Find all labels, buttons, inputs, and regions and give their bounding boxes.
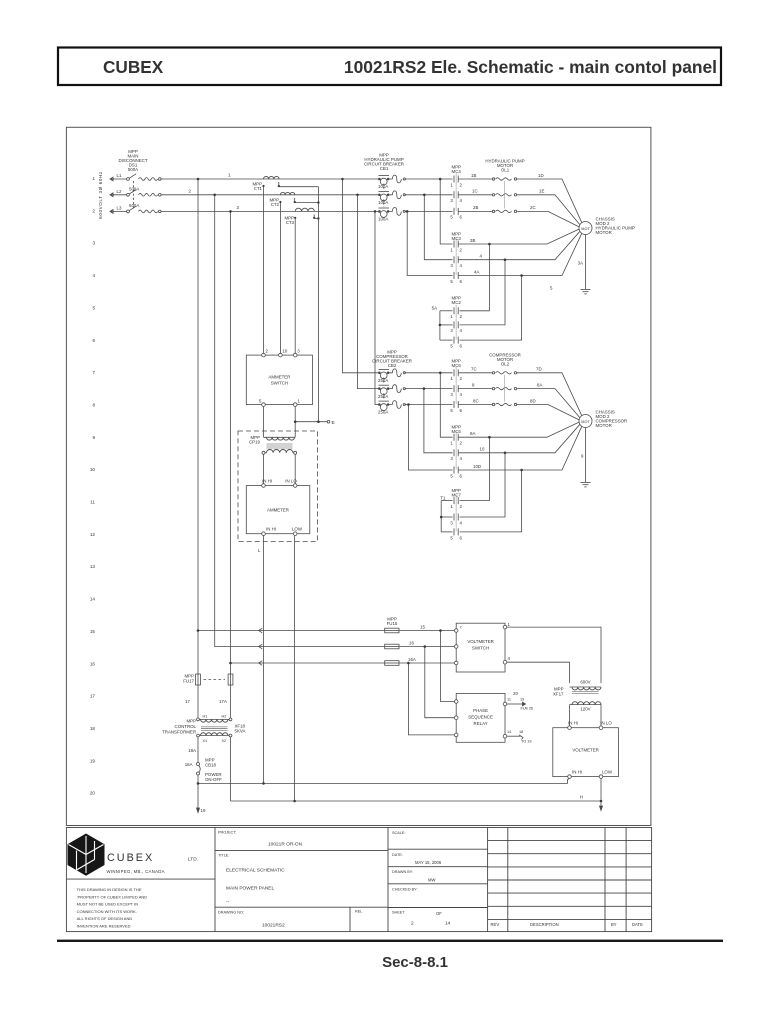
svg-text:14: 14 bbox=[507, 730, 511, 734]
svg-text:4: 4 bbox=[460, 520, 463, 525]
contactor MC6 pole3 bbox=[453, 401, 455, 408]
svg-text:2: 2 bbox=[460, 504, 463, 509]
svg-text:ON-OFF: ON-OFF bbox=[205, 777, 222, 782]
svg-text:5: 5 bbox=[92, 305, 95, 310]
MC2 linkage bbox=[455, 305, 457, 340]
svg-text:2: 2 bbox=[460, 182, 463, 187]
wire CT common vertical bbox=[317, 187, 319, 422]
svg-text:INVENTION ARE RESERVED: INVENTION ARE RESERVED bbox=[77, 924, 131, 929]
contactor MC5 pole1 bbox=[453, 434, 455, 441]
svg-text:5: 5 bbox=[450, 343, 453, 348]
svg-text:MC2: MC2 bbox=[452, 300, 462, 305]
wire feeder to CB2 row2 bbox=[358, 195, 380, 389]
svg-text:BY: BY bbox=[611, 922, 617, 927]
MC6 linkage bbox=[455, 367, 457, 404]
wire MC5 row2 to motor bbox=[505, 424, 580, 453]
wire L2 feeder bbox=[110, 194, 127, 196]
wire row1 CB2 to MC6 bbox=[405, 372, 453, 374]
svg-text:3: 3 bbox=[297, 349, 300, 354]
disconnect DS1 pole 3 bbox=[127, 210, 130, 213]
breaker CB2 pole 2 bbox=[379, 384, 390, 386]
svg-text:IN HI: IN HI bbox=[568, 721, 578, 726]
overload OL1 pole3 bbox=[492, 210, 494, 212]
svg-text:600VOLT 3Ø 60Hz: 600VOLT 3Ø 60Hz bbox=[98, 171, 103, 219]
svg-text:19: 19 bbox=[520, 698, 524, 702]
svg-text:7D: 7D bbox=[536, 367, 542, 372]
wire motor M2 ground drop bbox=[585, 428, 587, 483]
svg-text:LTD.: LTD. bbox=[188, 856, 198, 862]
wire row3 OL2 to motor bbox=[517, 405, 579, 420]
contactor MC7 pole2 bbox=[453, 514, 455, 521]
svg-text:19: 19 bbox=[90, 758, 96, 763]
node rail2 ammeter LOW bbox=[293, 800, 296, 803]
wire 15 bbox=[198, 630, 385, 632]
MC7 linkage bbox=[455, 495, 457, 532]
node MC3 row1 out bbox=[488, 243, 491, 246]
svg-text:8: 8 bbox=[92, 403, 95, 408]
svg-text:10: 10 bbox=[90, 467, 96, 472]
wire ammeter switch pin1 drop bbox=[294, 406, 296, 437]
MC5 linkage bbox=[455, 431, 457, 469]
ground symbol M1 bbox=[581, 289, 591, 291]
node CT2 common join bbox=[317, 201, 319, 203]
svg-text:CT1: CT1 bbox=[254, 186, 263, 191]
svg-text:MC6: MC6 bbox=[452, 363, 462, 368]
svg-text:X1: X1 bbox=[203, 739, 208, 743]
node row3-x230.5 bbox=[229, 210, 232, 213]
node CT3 left tap bbox=[294, 217, 296, 219]
svg-text:CP19: CP19 bbox=[249, 439, 261, 444]
contactor MC3 pole3 bbox=[453, 272, 455, 279]
contactor MC2 pole2 bbox=[453, 321, 455, 328]
svg-text:PROPERTY OF CUBEX LIMITED AND: PROPERTY OF CUBEX LIMITED AND bbox=[78, 894, 148, 899]
svg-text:1: 1 bbox=[450, 182, 453, 187]
svg-text:H2: H2 bbox=[222, 715, 227, 719]
arrow source L3 bbox=[110, 209, 114, 213]
wire row3 CB1 to MC4 bbox=[405, 210, 453, 212]
svg-text:9: 9 bbox=[92, 435, 95, 440]
svg-text:WINNIPEG, MB., CANADA: WINNIPEG, MB., CANADA bbox=[107, 869, 165, 874]
svg-text:IN HI: IN HI bbox=[262, 478, 272, 483]
svg-text:20: 20 bbox=[513, 691, 518, 696]
svg-text:4: 4 bbox=[480, 254, 483, 259]
svg-text:250A: 250A bbox=[378, 394, 388, 399]
svg-text:MW: MW bbox=[428, 877, 435, 882]
terminal 3 bbox=[293, 353, 297, 357]
node row1 MC5 drop bbox=[439, 372, 442, 375]
svg-text:IN HI: IN HI bbox=[572, 770, 582, 775]
svg-text:PROJECT:: PROJECT: bbox=[218, 831, 236, 835]
wire row1 OL1 to motor bbox=[517, 179, 582, 223]
wire row2 OL1 to motor bbox=[517, 195, 580, 225]
svg-text:2: 2 bbox=[92, 208, 95, 213]
ammeter box bbox=[246, 484, 309, 536]
svg-text:19: 19 bbox=[201, 808, 206, 813]
svg-text:8: 8 bbox=[472, 382, 475, 387]
svg-text:11: 11 bbox=[507, 698, 511, 702]
node MC3 row3 out bbox=[520, 274, 523, 277]
label OL1 block bbox=[485, 159, 524, 173]
voltmeter box bbox=[553, 728, 619, 777]
svg-text:13: 13 bbox=[90, 564, 96, 569]
svg-text:H1: H1 bbox=[203, 715, 208, 719]
svg-text:18A: 18A bbox=[188, 748, 196, 753]
cubex logo bbox=[68, 834, 105, 876]
contactor MC5 pole2 bbox=[453, 449, 455, 456]
wire MC5 to MC7 vertical 3 bbox=[460, 470, 522, 532]
svg-text:CB2: CB2 bbox=[388, 363, 397, 368]
svg-text:DRAWN BY:: DRAWN BY: bbox=[392, 870, 413, 874]
CT1 coil bbox=[264, 176, 280, 179]
contactor MC6 pole1 bbox=[453, 369, 455, 376]
fuse FU17-1 bbox=[196, 674, 201, 685]
svg-text:ALL RIGHTS OF DESIGN AND: ALL RIGHTS OF DESIGN AND bbox=[77, 916, 133, 921]
arrow wire 19 bbox=[197, 808, 200, 813]
wire feeder to CB2 row3 bbox=[375, 211, 379, 404]
svg-text:CB1: CB1 bbox=[380, 166, 389, 171]
svg-text:5KVA: 5KVA bbox=[235, 729, 246, 734]
svg-text:CUBEX: CUBEX bbox=[107, 852, 154, 864]
MC7 wye common bbox=[440, 501, 442, 532]
motor M1 bbox=[579, 222, 592, 235]
svg-text:MC3: MC3 bbox=[452, 236, 462, 241]
svg-text:5: 5 bbox=[450, 535, 453, 540]
titleblock right texts bbox=[392, 831, 643, 927]
titleblock middle texts bbox=[218, 831, 362, 929]
svg-text:2: 2 bbox=[460, 247, 463, 252]
wire drop row1 to MC3 bbox=[440, 179, 452, 244]
wire MC3 to MC2 vertical 2 bbox=[460, 260, 506, 325]
svg-text:16: 16 bbox=[409, 641, 414, 646]
breaker CB1 pole 3 bbox=[379, 207, 390, 209]
svg-text:2B: 2B bbox=[473, 205, 478, 210]
label MPP MAIN DISCONNECT DS1 500A bbox=[118, 149, 147, 172]
MC4 linkage bbox=[455, 173, 457, 211]
breaker CB2 gang link bbox=[383, 377, 385, 384]
wire feeder to CB2 row1 bbox=[343, 179, 380, 373]
wire drop row3 to MC5 bbox=[408, 405, 452, 471]
svg-text:6: 6 bbox=[460, 535, 463, 540]
svg-text:MC7: MC7 bbox=[452, 493, 462, 498]
arrow wire16A bbox=[259, 661, 263, 666]
svg-text:L3: L3 bbox=[117, 205, 122, 210]
svg-text:18: 18 bbox=[519, 730, 523, 734]
svg-text:DATE:: DATE: bbox=[392, 853, 403, 857]
fuse FU17-2 bbox=[228, 674, 233, 685]
wire X1 to CB18 bbox=[197, 737, 199, 763]
svg-text:CONNECTION WITH ITS WORK.: CONNECTION WITH ITS WORK. bbox=[77, 909, 137, 914]
contactor MC5 pole3 bbox=[453, 467, 455, 474]
svg-text:4A: 4A bbox=[474, 269, 479, 274]
overload OL2 pole3 bbox=[492, 403, 494, 405]
svg-text:7: 7 bbox=[92, 370, 95, 375]
svg-text:ELECTRICAL SCHEMATIC: ELECTRICAL SCHEMATIC bbox=[226, 868, 285, 874]
svg-text:4: 4 bbox=[460, 328, 463, 333]
fuse FU15-3 bbox=[385, 661, 399, 666]
node row2 MC3 drop bbox=[423, 194, 426, 197]
wire phase bus row 1 bbox=[161, 178, 379, 180]
contactor MC2 pole1 bbox=[453, 307, 455, 314]
svg-text:3: 3 bbox=[450, 328, 453, 333]
node row2 CB2 drop bbox=[356, 194, 359, 197]
svg-text:14: 14 bbox=[90, 597, 96, 602]
svg-text:3: 3 bbox=[450, 456, 453, 461]
svg-text:CT3: CT3 bbox=[286, 220, 295, 225]
wire ammeter LOW drop bbox=[294, 536, 296, 802]
svg-text:12: 12 bbox=[90, 532, 96, 537]
svg-text:500A: 500A bbox=[128, 167, 138, 172]
svg-text:1D: 1D bbox=[538, 173, 544, 178]
arrow H end bbox=[600, 806, 603, 811]
node row3 CB2 drop bbox=[374, 210, 377, 213]
svg-text:14: 14 bbox=[445, 921, 451, 927]
breaker CB2 pole 3 bbox=[379, 400, 390, 402]
svg-text:5: 5 bbox=[450, 473, 453, 478]
svg-text:CUBEX: CUBEX bbox=[103, 57, 164, 77]
node wire16A relay drop bbox=[407, 662, 410, 665]
svg-text:250A: 250A bbox=[378, 410, 388, 415]
wire row2 OL2 to motor bbox=[517, 389, 580, 418]
node rail2 voltmeter drop bbox=[600, 800, 603, 803]
svg-text:6: 6 bbox=[460, 343, 463, 348]
svg-text:16: 16 bbox=[90, 661, 96, 666]
node CT1 right tap bbox=[278, 185, 280, 187]
svg-text:16A: 16A bbox=[408, 657, 416, 662]
wire drop wire16A to relay bbox=[408, 663, 454, 735]
svg-text:AMMETER: AMMETER bbox=[267, 508, 289, 513]
wire CB18 to rail1 bbox=[197, 775, 199, 811]
wire relay pin11 out bbox=[507, 703, 523, 705]
OL2 linkage bbox=[504, 375, 506, 402]
node CT3 common join bbox=[317, 217, 319, 219]
svg-text:2: 2 bbox=[460, 376, 463, 381]
wire vertical feeder phase3 x230.5 bbox=[230, 211, 232, 674]
wire MC5 row3 to motor bbox=[522, 426, 582, 470]
wire MC3 to MC2 vertical 1 bbox=[460, 244, 490, 311]
svg-text:5: 5 bbox=[450, 408, 453, 413]
svg-text:OF: OF bbox=[436, 911, 442, 916]
wire MC3 row2 to motor bbox=[505, 231, 580, 259]
svg-text:FU15: FU15 bbox=[387, 621, 398, 626]
wire ammeter L drop bbox=[263, 536, 265, 784]
svg-text:RELAY: RELAY bbox=[474, 721, 488, 726]
svg-text:6: 6 bbox=[92, 338, 95, 343]
svg-text:CT2: CT2 bbox=[271, 202, 280, 207]
svg-text:8C: 8C bbox=[473, 398, 479, 403]
arrow source L2 bbox=[110, 193, 114, 197]
node CT3 right tap bbox=[313, 217, 315, 219]
svg-text:250A: 250A bbox=[378, 378, 388, 383]
svg-text:6: 6 bbox=[460, 215, 463, 220]
overload OL1 pole2 bbox=[492, 194, 494, 196]
svg-text:E: E bbox=[332, 420, 335, 426]
svg-text:10021RS2: 10021RS2 bbox=[262, 923, 285, 929]
svg-text:18: 18 bbox=[90, 726, 96, 731]
left cell divider bbox=[214, 828, 216, 932]
terminal 10 bbox=[279, 353, 283, 357]
svg-text:1: 1 bbox=[92, 176, 95, 181]
svg-text:XF17: XF17 bbox=[553, 691, 564, 696]
svg-text:1C: 1C bbox=[472, 189, 478, 194]
node row2 MC5 drop bbox=[423, 387, 426, 390]
wire row2 CB1 to MC4 bbox=[405, 194, 453, 196]
rail 2 bbox=[231, 800, 602, 802]
svg-text:4: 4 bbox=[508, 656, 511, 661]
svg-text:MOT: MOT bbox=[581, 227, 590, 231]
transformer XF17 primary bbox=[570, 686, 602, 688]
svg-text:5: 5 bbox=[450, 215, 453, 220]
svg-text:3B: 3B bbox=[470, 238, 475, 243]
transformer CP19 bbox=[262, 437, 297, 485]
wire CT1 secondary tap bbox=[279, 182, 319, 187]
svg-text:REV: REV bbox=[491, 922, 500, 927]
svg-text:10D: 10D bbox=[473, 464, 481, 469]
svg-text:OL1: OL1 bbox=[501, 168, 510, 173]
arrow source L1 bbox=[110, 177, 114, 181]
wire drop wire15 to relay bbox=[441, 631, 455, 702]
title block frame bbox=[66, 828, 651, 932]
svg-text:TO 19: TO 19 bbox=[521, 740, 531, 744]
svg-text:16A: 16A bbox=[185, 762, 193, 767]
svg-text:15: 15 bbox=[420, 625, 425, 630]
node CT2 right tap bbox=[294, 201, 296, 203]
svg-text:L2: L2 bbox=[117, 189, 122, 194]
svg-text:SCALE:: SCALE: bbox=[392, 831, 406, 835]
svg-text:6: 6 bbox=[460, 473, 463, 478]
node wire15 relay drop bbox=[439, 629, 442, 632]
wire MC5 to MC7 vertical 1 bbox=[460, 437, 490, 500]
svg-text:3: 3 bbox=[92, 241, 95, 246]
wire drop row2 to MC5 bbox=[424, 389, 453, 453]
svg-text:10: 10 bbox=[480, 447, 485, 452]
wire drop ammeter-switch terminal 10 bbox=[279, 203, 281, 354]
svg-text:X2: X2 bbox=[222, 739, 227, 743]
disconnect DS1 pole 1 bbox=[127, 178, 130, 181]
node MC3 row2 out bbox=[504, 258, 507, 261]
arrow wire15 bbox=[259, 628, 263, 633]
svg-text:5: 5 bbox=[450, 279, 453, 284]
revision table bbox=[507, 828, 509, 932]
node MC2 wye bbox=[439, 324, 442, 327]
svg-text:10021R OR-ON: 10021R OR-ON bbox=[268, 842, 303, 848]
svg-text:4: 4 bbox=[460, 263, 463, 268]
wire voltmeter LOW drop bbox=[600, 778, 602, 809]
svg-text:1: 1 bbox=[450, 247, 453, 252]
CIRCUIT bbox=[110, 174, 379, 674]
breaker CB2 pole 1 bbox=[379, 368, 390, 370]
svg-text:REL: REL bbox=[355, 910, 362, 914]
contactor MC6 pole2 bbox=[453, 385, 455, 392]
svg-text:2: 2 bbox=[266, 349, 269, 354]
wire drop ammeter-switch terminal 3 bbox=[294, 218, 296, 353]
svg-text:SEQUENCE: SEQUENCE bbox=[468, 715, 493, 720]
row numbers 1-20 bbox=[90, 176, 96, 796]
svg-text:MC4: MC4 bbox=[452, 169, 462, 174]
contactor MC7 pole1 bbox=[453, 497, 455, 504]
motor M2 bbox=[579, 415, 592, 428]
svg-text:100A: 100A bbox=[378, 200, 388, 205]
fuse FU15-1 bbox=[385, 628, 399, 633]
svg-text:600V: 600V bbox=[580, 680, 590, 685]
node wire15 x198 bbox=[197, 629, 200, 632]
legal small print bbox=[77, 887, 148, 929]
OL1 linkage bbox=[504, 181, 506, 209]
svg-text:4: 4 bbox=[460, 198, 463, 203]
contactor MC4 pole2 bbox=[453, 191, 455, 198]
svg-text:4: 4 bbox=[460, 392, 463, 397]
svg-text:1E: 1E bbox=[539, 189, 544, 194]
svg-text:L: L bbox=[258, 548, 261, 553]
svg-text:T1: T1 bbox=[440, 495, 446, 500]
wire row1 OL2 to motor bbox=[517, 373, 582, 416]
svg-text:1: 1 bbox=[450, 376, 453, 381]
node MC7 wye bbox=[440, 516, 443, 519]
svg-text:LOW: LOW bbox=[292, 527, 303, 532]
MC2 wye common bbox=[439, 311, 441, 340]
svg-text:L1: L1 bbox=[117, 173, 122, 178]
svg-text:6: 6 bbox=[460, 408, 463, 413]
wire L3 feeder bbox=[110, 210, 127, 212]
wire motor M1 ground drop bbox=[585, 235, 587, 290]
svg-text:IN LO: IN LO bbox=[285, 478, 297, 483]
contactor MC3 pole1 bbox=[453, 241, 455, 248]
breaker CB1 pole 1 bbox=[379, 175, 390, 177]
svg-text:5: 5 bbox=[550, 286, 553, 291]
wire MC5 to MC7 vertical 2 bbox=[460, 453, 506, 517]
fuse FU15-2 bbox=[385, 644, 399, 649]
svg-text:120V: 120V bbox=[580, 706, 590, 711]
svg-text:1: 1 bbox=[508, 622, 511, 627]
svg-text:TRANSFORMER: TRANSFORMER bbox=[162, 730, 196, 735]
node CT1 left tap bbox=[262, 185, 264, 187]
breaker CB1 pole 2 bbox=[379, 190, 390, 192]
svg-text:3: 3 bbox=[450, 263, 453, 268]
wire vertical feeder phase2 x214.7 bbox=[214, 195, 216, 647]
svg-text:3: 3 bbox=[450, 392, 453, 397]
wire CT3 secondary tap bbox=[314, 215, 318, 219]
wire secondary to ammeter bbox=[263, 454, 265, 485]
wire MC3 to MC2 vertical 3 bbox=[460, 276, 522, 341]
overload OL1 pole1 bbox=[492, 178, 494, 180]
wire drop wire16 to relay bbox=[425, 647, 455, 718]
svg-text:SWITCH: SWITCH bbox=[472, 646, 489, 651]
svg-text:DRAWING NO:: DRAWING NO: bbox=[218, 910, 244, 914]
wire drop row3 to MC3 bbox=[407, 211, 452, 275]
label CB1 block bbox=[364, 153, 404, 172]
wire row1 CB1 to MC4 bbox=[405, 178, 453, 180]
right info column bbox=[487, 828, 489, 932]
svg-text:11: 11 bbox=[90, 500, 95, 505]
svg-text:3: 3 bbox=[450, 198, 453, 203]
wire drop ammeter-switch terminal 2 bbox=[263, 187, 265, 354]
overload OL2 pole2 bbox=[492, 387, 494, 389]
svg-text:LOW: LOW bbox=[602, 770, 613, 775]
wire X2 to rail2 bbox=[230, 737, 232, 801]
label OL2 block bbox=[489, 352, 521, 366]
svg-text:THIS DRAWING IN DESIGN IS THE: THIS DRAWING IN DESIGN IS THE bbox=[77, 887, 142, 892]
wire VM switch pin1 to XF17 bbox=[507, 627, 601, 683]
wire row3 CB2 to MC6 bbox=[405, 404, 453, 406]
svg-text:500A: 500A bbox=[129, 203, 139, 208]
ground symbol M2 bbox=[581, 482, 591, 484]
svg-text:H: H bbox=[580, 795, 583, 800]
wire 16A bbox=[231, 662, 385, 664]
svg-text:2: 2 bbox=[411, 921, 414, 927]
node row2-x214.7 bbox=[213, 194, 216, 197]
svg-text:2: 2 bbox=[460, 314, 463, 319]
svg-text:1: 1 bbox=[450, 504, 453, 509]
wire VM switch pin4 to XF17 bbox=[507, 662, 570, 683]
